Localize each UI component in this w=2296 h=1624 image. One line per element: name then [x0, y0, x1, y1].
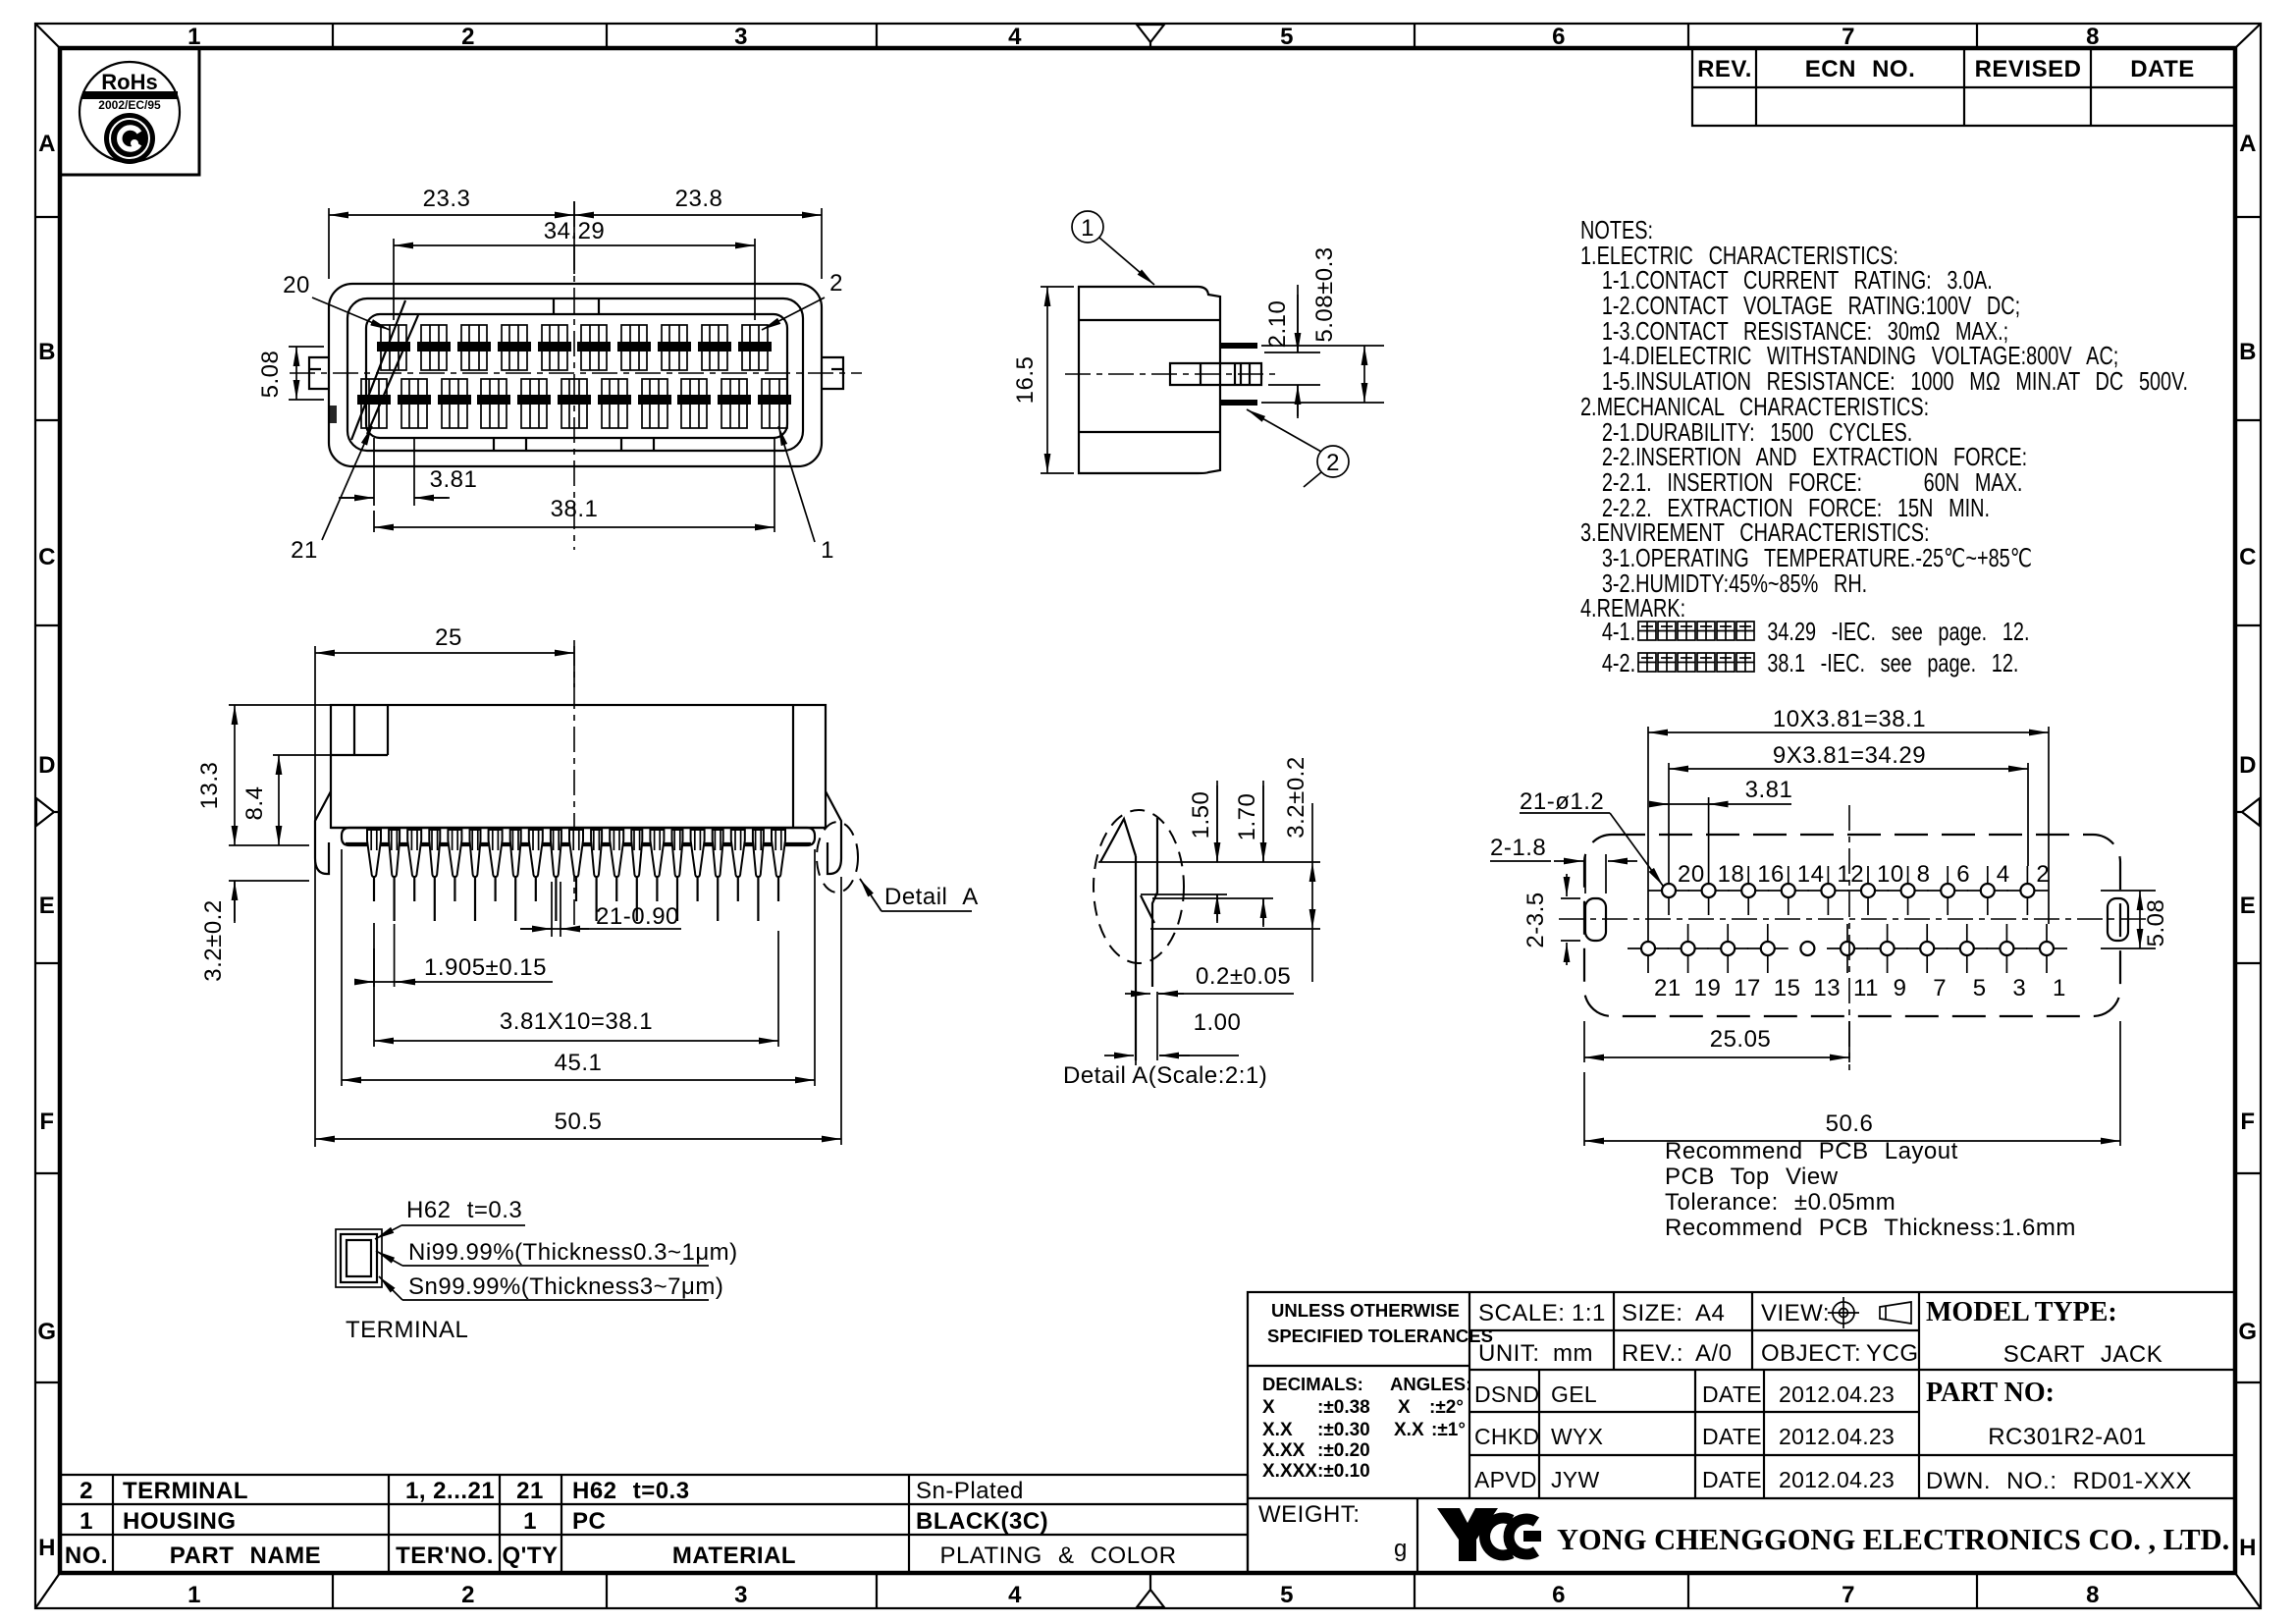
svg-text:PLATING & COLOR: PLATING & COLOR	[939, 1543, 1176, 1569]
svg-text:8.4: 8.4	[241, 786, 268, 821]
centering mark right	[2235, 798, 2260, 826]
svg-text:11: 11	[1853, 975, 1879, 1001]
svg-text:2-3.5: 2-3.5	[1522, 892, 1549, 947]
svg-text:TERMINAL: TERMINAL	[346, 1317, 468, 1343]
dim 5.08±0.3	[1363, 346, 1365, 403]
detail A leader	[860, 879, 972, 911]
svg-text:1: 1	[523, 1508, 537, 1535]
svg-text:TERMINAL: TERMINAL	[123, 1478, 248, 1504]
front view scart key slant inner	[367, 315, 418, 434]
front view top pin row (pins 20..2)	[377, 325, 410, 370]
detail A dim 1.50	[1216, 781, 1218, 923]
dim 34.29 ext lines	[394, 239, 755, 320]
RoHS logo box	[60, 48, 199, 175]
dim 3.81X10=38.1	[374, 1040, 778, 1042]
dim 5.08±0.3 ext lines	[1261, 346, 1384, 403]
front view bottom tab right	[621, 438, 654, 451]
dim 13.3	[234, 705, 236, 845]
detail A ref line top	[1098, 861, 1320, 863]
svg-text:RC301R2-A01: RC301R2-A01	[1988, 1424, 2147, 1450]
svg-text:PART NO:: PART NO:	[1926, 1378, 2055, 1408]
svg-text:19: 19	[1694, 975, 1722, 1001]
svg-text:1.905±0.15: 1.905±0.15	[424, 954, 547, 981]
svg-text:3.81: 3.81	[430, 466, 478, 493]
svg-text:2: 2	[829, 270, 843, 297]
bottom view top-left key slot	[331, 705, 388, 755]
svg-text:REV.: REV.	[1697, 56, 1752, 82]
svg-text:45.1: 45.1	[555, 1050, 603, 1076]
bottom view left ear	[315, 791, 331, 874]
svg-text:3.2±0.2: 3.2±0.2	[1283, 756, 1309, 838]
svg-text:23.3: 23.3	[423, 186, 471, 212]
pcb left slot hole	[1585, 898, 1606, 941]
svg-text:25.05: 25.05	[1710, 1026, 1772, 1053]
svg-text:14: 14	[1797, 861, 1825, 888]
detail A magnified view dashed ellipse	[1094, 810, 1184, 963]
svg-text:1: 1	[1081, 215, 1095, 242]
ycg logo	[1437, 1508, 1498, 1561]
dim 21-0.90	[520, 928, 681, 930]
svg-text:SCALE:1:1SIZE:A4VIEW:: SCALE:1:1SIZE:A4VIEW:	[1478, 1300, 1830, 1326]
dim 21-0.90 ext	[552, 882, 561, 937]
dim 50.5 ext	[840, 877, 842, 1145]
svg-text:3.81X10=38.1: 3.81X10=38.1	[500, 1008, 653, 1035]
svg-text:5: 5	[1973, 975, 1987, 1001]
svg-text:Sn99.99%(Thickness3~7μm): Sn99.99%(Thickness3~7μm)	[408, 1273, 723, 1300]
bottom view right inner wall	[792, 705, 794, 828]
note 4-2 with CJK	[1638, 653, 1656, 672]
svg-text:2002/EC/95: 2002/EC/95	[98, 98, 161, 112]
title block grid	[1248, 1292, 2235, 1573]
svg-text:34.29: 34.29	[544, 218, 606, 244]
dim 23.3 ext lines	[329, 201, 822, 279]
dim 1.905±0.15	[359, 981, 553, 983]
title block outer	[1248, 1292, 2235, 1573]
RoHS bar	[82, 91, 178, 99]
dim 2.10	[1297, 285, 1299, 418]
svg-text:20: 20	[1678, 861, 1705, 888]
RoHS logo circle	[80, 62, 180, 162]
svg-text:3.81: 3.81	[1745, 777, 1793, 803]
svg-text:2: 2	[1326, 450, 1340, 476]
svg-text:1, 2...21: 1, 2...21	[405, 1478, 495, 1504]
pcb right slot hole	[2108, 898, 2128, 941]
balloon 1	[1072, 211, 1103, 243]
dim 45.1 ext	[342, 849, 815, 1086]
svg-text:21-0.90: 21-0.90	[596, 903, 679, 930]
dim 5.08	[295, 347, 297, 400]
front view top tab	[554, 299, 599, 314]
svg-text:21: 21	[291, 537, 318, 564]
terminal cross-section outer rect	[336, 1229, 382, 1287]
svg-text:TER'NO.: TER'NO.	[396, 1543, 494, 1569]
pcb top hole row pins 20..2	[1648, 861, 1705, 915]
svg-text:50.5: 50.5	[555, 1109, 603, 1135]
terminal comb 21 teeth	[367, 830, 381, 901]
svg-text:1: 1	[80, 1508, 93, 1535]
front view scart key slant outer	[351, 300, 405, 440]
dim 23.8	[574, 214, 822, 216]
svg-text:PART NAME: PART NAME	[170, 1543, 321, 1569]
front view right lug	[822, 357, 843, 389]
front view vertical centerline	[573, 201, 575, 550]
svg-text:20: 20	[283, 272, 310, 298]
svg-text:15: 15	[1774, 975, 1801, 1001]
front view bottom pin row (pins 21..1)	[357, 379, 391, 428]
svg-text:9X3.81=34.29: 9X3.81=34.29	[1773, 742, 1926, 769]
dim 3.81 ext lines	[374, 438, 414, 506]
svg-text:25: 25	[435, 624, 462, 651]
svg-text:21: 21	[516, 1478, 544, 1504]
side view flange lines	[1079, 320, 1220, 432]
dim 34.29	[394, 244, 755, 246]
dim 3.2±0.2 ext	[229, 881, 309, 923]
pcb dim 3.81	[1708, 797, 1710, 866]
svg-text:PC: PC	[572, 1508, 606, 1535]
dim 13.3 ext	[229, 705, 331, 845]
pcb dim 25.05	[1584, 1021, 1849, 1062]
svg-text:2.10: 2.10	[1264, 300, 1291, 349]
front view outer shell	[329, 284, 822, 466]
svg-text:13: 13	[1813, 975, 1841, 1001]
svg-text:WEIGHT:: WEIGHT:	[1258, 1501, 1361, 1528]
svg-text:50.6: 50.6	[1826, 1110, 1874, 1137]
pcb dim 10X3.81=38.1	[1648, 727, 2049, 924]
svg-text:DWN. NO.: RD01-XXX: DWN. NO.: RD01-XXX	[1926, 1468, 2192, 1494]
front view left lug	[309, 357, 329, 389]
parts list table grid	[60, 1475, 1248, 1573]
svg-text:5.08±0.3: 5.08±0.3	[1311, 246, 1338, 342]
pcb dim 9X3.81=34.29	[1669, 763, 2028, 866]
detail A ref line bottom	[1150, 928, 1320, 930]
view symbol cone	[1880, 1302, 1911, 1324]
terminal cross-section inner rect	[347, 1240, 371, 1276]
svg-text:5.08: 5.08	[257, 351, 284, 399]
detail A dim 3.2±0.2	[1311, 862, 1313, 929]
svg-text:18: 18	[1718, 861, 1745, 888]
svg-text:H62 t=0.3: H62 t=0.3	[406, 1197, 522, 1223]
svg-text:REVISED: REVISED	[1975, 56, 2082, 82]
centering mark top	[1137, 25, 1164, 48]
side view body	[1079, 287, 1220, 473]
zone row ticks right band	[2235, 217, 2261, 1382]
dim 3.2±0.2	[234, 881, 236, 921]
dim 16.5	[1046, 287, 1048, 473]
svg-text:7: 7	[1933, 975, 1947, 1001]
svg-text:1.70: 1.70	[1234, 793, 1260, 841]
side view centerline	[1065, 373, 1276, 375]
svg-text:21-ø1.2: 21-ø1.2	[1520, 788, 1604, 815]
svg-text:13.3: 13.3	[196, 762, 223, 810]
pcb dim 5.08	[2101, 891, 2156, 948]
svg-text:YONG CHENGGONG ELECTRONICS CO.: YONG CHENGGONG ELECTRONICS CO. , LTD.	[1557, 1523, 2229, 1556]
detail A hook profile	[1100, 819, 1136, 862]
detail A source circle (dashed)	[817, 822, 858, 893]
svg-text:g: g	[1394, 1536, 1408, 1562]
bottom view skirt	[342, 828, 815, 845]
side view lower peg (bold)	[1220, 400, 1257, 406]
svg-text:2: 2	[80, 1478, 93, 1504]
dim 50.5	[315, 1138, 841, 1140]
svg-text:BLACK(3C): BLACK(3C)	[916, 1508, 1048, 1535]
bottom view right ear	[826, 791, 841, 874]
pcb dim 50.6	[1584, 1021, 2120, 1146]
detail A ref line step	[1141, 894, 1273, 898]
svg-text:10X3.81=38.1: 10X3.81=38.1	[1773, 706, 1926, 732]
svg-text:1: 1	[2053, 975, 2066, 1001]
svg-text:6: 6	[1956, 861, 1970, 888]
pcb bottom hole row pins 21..1	[1628, 924, 1682, 1001]
svg-text:H62 t=0.3: H62 t=0.3	[572, 1478, 690, 1504]
notes text block	[1580, 216, 2188, 677]
svg-text:0.2±0.05: 0.2±0.05	[1196, 963, 1291, 990]
svg-text:Detail A: Detail A	[884, 884, 979, 910]
balloon 2	[1317, 446, 1349, 477]
RoHS C-tick emblem	[104, 113, 155, 164]
svg-text:3.2±0.2: 3.2±0.2	[200, 899, 227, 981]
svg-text:4: 4	[1997, 861, 2010, 888]
svg-text:8: 8	[1917, 861, 1931, 888]
note 4-1 with CJK	[1638, 622, 1656, 640]
front view opening	[366, 314, 787, 438]
front view YCG molded mark	[328, 406, 337, 423]
dim 2.10 ext lines	[1264, 352, 1320, 385]
svg-text:MODEL TYPE:: MODEL TYPE:	[1926, 1297, 2117, 1327]
svg-text:Ni99.99%(Thickness0.3~1μm): Ni99.99%(Thickness0.3~1μm)	[408, 1239, 738, 1266]
bottom view vertical centerline	[573, 640, 575, 928]
dim 3.81	[339, 497, 450, 499]
bottom view body bottom edge bold	[331, 827, 826, 829]
svg-text:DATE: DATE	[2130, 56, 2195, 82]
svg-text:12: 12	[1837, 861, 1864, 888]
zone column ticks top band	[333, 24, 1977, 48]
dim 25	[315, 652, 574, 654]
svg-text:HOUSING: HOUSING	[123, 1508, 237, 1535]
dim 3.81X10=38.1 ext	[374, 931, 778, 1047]
svg-text:9: 9	[1894, 975, 1907, 1001]
svg-text:RoHs: RoHs	[101, 70, 157, 94]
dim 5.08 ext lines	[289, 347, 324, 400]
dim 38.1	[374, 526, 774, 528]
svg-text:1.50: 1.50	[1188, 791, 1214, 839]
svg-text:21: 21	[1654, 975, 1682, 1001]
svg-text:Detail A(Scale:2:1): Detail A(Scale:2:1)	[1063, 1062, 1267, 1089]
dim 8.4 ext	[273, 754, 331, 756]
terminal cross-section middle rect	[341, 1234, 377, 1282]
detail A dim 1.70	[1262, 781, 1264, 927]
svg-text:5.08: 5.08	[2143, 899, 2169, 947]
svg-text:ECN NO.: ECN NO.	[1805, 56, 1916, 82]
corner diagonal top-left	[35, 24, 60, 48]
svg-text:3: 3	[2012, 975, 2026, 1001]
detail A dim 0.2±0.05	[1125, 993, 1150, 995]
centering mark left	[36, 798, 60, 826]
pcb horizontal centerline	[1559, 918, 2147, 920]
svg-text:Sn-Plated: Sn-Plated	[916, 1478, 1024, 1504]
svg-text:1: 1	[821, 537, 834, 564]
side view center pin	[1170, 363, 1261, 385]
svg-text:16: 16	[1757, 861, 1785, 888]
pcb layout dashed outline	[1584, 835, 2120, 1016]
corner diagonal bottom-right	[2235, 1573, 2261, 1608]
svg-text:38.1: 38.1	[551, 496, 599, 522]
detail A dim 1.00	[1136, 992, 1157, 1065]
centering mark bottom	[1137, 1573, 1164, 1607]
zone column ticks bottom band	[333, 1573, 1977, 1608]
svg-text:SCART JACK: SCART JACK	[2003, 1341, 2163, 1368]
dim 8.4	[278, 755, 280, 845]
dim 16.5 ext lines	[1041, 287, 1074, 473]
svg-text:17: 17	[1734, 975, 1761, 1001]
side view upper peg (bold)	[1220, 343, 1257, 349]
bottom view body	[331, 705, 826, 828]
svg-text:MATERIAL: MATERIAL	[672, 1543, 796, 1569]
front view bottom tab left	[494, 438, 526, 451]
svg-text:Q'TY: Q'TY	[502, 1543, 558, 1569]
dim 1.905±0.15 ext	[374, 923, 395, 987]
pcb vertical centerline	[1848, 805, 1850, 1070]
view symbol first angle circle	[1828, 1297, 1859, 1328]
bottom view skirt bottom bold	[346, 842, 811, 844]
svg-text:16.5: 16.5	[1012, 356, 1039, 405]
zone row ticks left band	[35, 217, 60, 1382]
dim 45.1	[342, 1079, 815, 1081]
front view horizontal centerline	[290, 372, 862, 374]
corner diagonal bottom-left	[35, 1573, 60, 1608]
svg-text:23.8: 23.8	[675, 186, 723, 212]
front view inset shell	[347, 298, 803, 451]
svg-text:1.00: 1.00	[1194, 1009, 1242, 1036]
corner diagonal top-right	[2235, 24, 2261, 48]
svg-text:2-1.8: 2-1.8	[1490, 835, 1546, 861]
revision table	[1692, 48, 2235, 126]
dim 23.3	[329, 214, 574, 216]
svg-text:NO.: NO.	[65, 1543, 108, 1569]
svg-text:10: 10	[1877, 861, 1904, 888]
dim 38.1 ext lines	[374, 438, 774, 532]
dim 25 ext	[315, 646, 574, 1147]
